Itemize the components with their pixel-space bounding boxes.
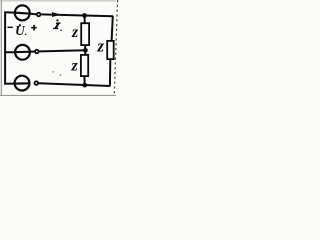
wire: right branch vertical upper <box>112 16 113 41</box>
terminal node (middle source) <box>35 50 39 54</box>
impedance Z1 (upper left branch) <box>81 23 89 45</box>
wire: top source left stub <box>4 11 14 13</box>
label I (current) <box>53 19 62 31</box>
svg-text:z: z <box>71 24 79 41</box>
voltage source U3 (bottom) <box>14 76 31 91</box>
current arrow <box>52 12 61 17</box>
scan noise specks <box>52 71 54 73</box>
terminal node (bottom source) <box>35 81 39 85</box>
wire: bottom rail <box>39 83 111 86</box>
wire: left branch upper <box>84 16 86 24</box>
node B (middle junction dot) <box>83 48 88 53</box>
impedance Z3 (right branch) <box>107 41 114 59</box>
wire: right branch vertical lower <box>109 60 111 86</box>
scan frame bottom edge <box>0 94 116 96</box>
scan frame right dotted edge <box>114 0 117 96</box>
label - U + (top source polarity) <box>8 23 37 38</box>
wire: left branch middle <box>84 46 86 55</box>
scan frame left edge <box>0 0 2 96</box>
scan frame top edge <box>0 0 116 2</box>
node C (bottom junction dot) <box>82 83 87 88</box>
wire: middle source left stub <box>4 51 14 53</box>
svg-text:z: z <box>71 57 79 74</box>
svg-text:z: z <box>96 37 104 56</box>
wire: middle rail <box>31 50 86 51</box>
node A (top junction dot) <box>82 13 87 18</box>
wire: top rail <box>41 14 113 16</box>
terminal node (top source) <box>31 13 41 17</box>
wire: bottom source left stub <box>4 83 14 85</box>
background <box>0 0 120 98</box>
voltage source U2 (middle) <box>14 45 31 60</box>
impedance Z2 (lower left branch) <box>81 55 88 76</box>
wire: left branch lower <box>83 76 85 85</box>
voltage source U1 (top) <box>14 5 31 20</box>
wire: left vertical bus <box>4 12 6 84</box>
